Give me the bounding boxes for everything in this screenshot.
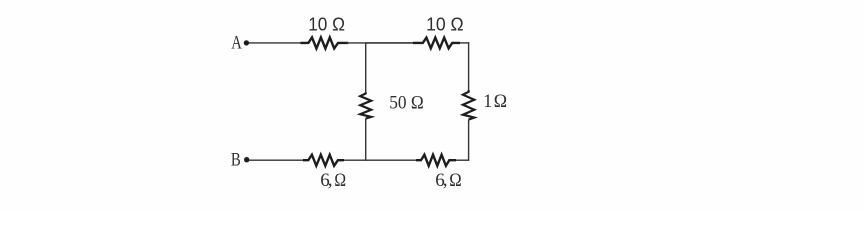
terminal label B (231, 150, 241, 171)
label 10 ohm top-right (426, 14, 464, 34)
wire: right vertical lower segment (468, 120, 470, 161)
svg-text:B: B (231, 150, 241, 171)
svg-text:Ω: Ω (449, 170, 461, 191)
node B terminal dot (244, 157, 249, 162)
svg-text:10 Ω: 10 Ω (426, 14, 464, 34)
label 6 ohm bottom-left (320, 170, 346, 192)
terminal label A (231, 33, 242, 54)
wire: top-left resistor to middle node (346, 42, 413, 44)
label 10 ohm top-left (308, 14, 345, 34)
wire: A to resistor 10ohm top-left (249, 42, 303, 44)
svg-text:,: , (328, 170, 333, 191)
wire: right vertical upper segment (468, 42, 470, 90)
resistor 10ohm top-right (413, 38, 460, 49)
label 1 ohm (483, 91, 507, 112)
svg-text:50 Ω: 50 Ω (389, 92, 423, 113)
resistor 6ohm bottom-right (416, 155, 456, 166)
resistor 1ohm (right vertical) (463, 90, 474, 120)
wire: middle vertical upper segment (365, 42, 367, 92)
label 50 ohm (389, 92, 423, 113)
wire: middle node to resistor 10ohm top-right (366, 42, 413, 44)
label 6 ohm bottom-right (435, 170, 461, 192)
svg-text:1 Ω: 1 Ω (483, 91, 507, 112)
wire: bottom-left resistor to bottom middle node (344, 159, 416, 161)
wire: top-right resistor to top-right corner (460, 42, 469, 44)
node A terminal dot (244, 40, 249, 45)
wire: B to resistor 6ohm bottom-left (249, 159, 303, 161)
svg-text:A: A (231, 33, 242, 54)
svg-text:,: , (443, 170, 448, 191)
wire: bottom-right resistor to bottom-right corner (456, 159, 469, 161)
svg-text:10 Ω: 10 Ω (308, 14, 345, 34)
resistor 6ohm bottom-left (303, 155, 344, 166)
svg-text:Ω: Ω (334, 170, 346, 191)
resistor 10ohm top-left (301, 37, 349, 48)
wire: middle vertical lower segment (365, 119, 367, 161)
resistor 50ohm (middle vertical) (360, 92, 371, 119)
